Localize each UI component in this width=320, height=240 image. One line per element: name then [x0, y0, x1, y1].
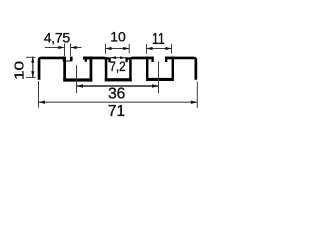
plate run C (box1 to box2): [83, 57, 105, 60]
dim 11 left arrow: [147, 47, 153, 50]
svg-text:71: 71: [108, 103, 125, 120]
dim 4,75 extension line left: [64, 44, 66, 57]
dim 7,2 right arrow: [120, 56, 125, 59]
dim 11 extension line right: [171, 44, 173, 54]
dim 4,75 left tail line: [45, 47, 64, 49]
hook at end of run A: [63, 57, 66, 62]
box1 bottom bar: [63, 78, 92, 81]
box3 right wall: [172, 57, 174, 81]
dim 10 left top arrow (pointing up): [31, 57, 34, 63]
dimension linework: [26, 44, 197, 109]
dim 10 left top extension line: [26, 56, 36, 58]
dim 71 left arrow: [39, 101, 45, 104]
box2 left lip hook: [108, 57, 110, 62]
web under 4,75 slot: [65, 60, 71, 61]
dim 71 extension line left: [38, 81, 40, 108]
svg-text:10: 10: [13, 61, 27, 80]
dim 10 top right arrow: [123, 47, 129, 50]
svg-text:10: 10: [110, 29, 126, 45]
dim 10 top extension line left: [105, 44, 107, 54]
box2 right lip: [125, 57, 131, 59]
dim 10 top line: [106, 48, 130, 50]
box3 right lip: [165, 57, 174, 60]
dim 36 extension line left: [76, 65, 78, 93]
dim 4,75 left arrow (outside, pointing right): [58, 46, 64, 49]
dim 7,2 line: [111, 57, 126, 59]
box1 right lip: [83, 57, 92, 60]
dim 10 top left arrow: [106, 47, 112, 50]
box3 right lip hook: [165, 57, 167, 62]
dim 36 right arrow: [152, 84, 158, 87]
dim 4,75 right arrow (outside, pointing left): [71, 46, 77, 49]
box2 right lip hook: [125, 57, 127, 62]
plate run D (box2 to box3): [132, 57, 147, 60]
dim 10 left bottom extension line: [26, 76, 36, 78]
box2 right wall: [129, 57, 132, 81]
dim 10 left bottom arrow (pointing down): [31, 71, 34, 77]
dim 71 right arrow: [191, 101, 197, 104]
dim 11 right arrow: [166, 47, 172, 50]
left outer wall with top plate run A: [38, 57, 65, 80]
box3 left lip: [146, 57, 154, 60]
dim 4,75 right tail line: [71, 47, 82, 49]
dim 71 extension line right: [196, 82, 198, 109]
dim 10 top extension line right: [128, 44, 130, 54]
svg-text:4,75: 4,75: [44, 30, 71, 46]
stub (right side of 4,75 slot): [70, 57, 73, 62]
box1 right lip hook: [85, 57, 87, 62]
box2 bottom bar: [105, 78, 132, 81]
box3 left lip hook: [151, 57, 153, 62]
svg-text:7,2: 7,2: [109, 58, 125, 74]
box3 bottom bar: [146, 78, 174, 81]
arrowheads: [31, 46, 197, 104]
box2 left wall: [105, 57, 108, 81]
profile cross-section (black extrusion outline): [38, 57, 198, 82]
dim 11 line: [147, 48, 172, 50]
dim 36 extension line right: [158, 62, 160, 94]
dim 4,75 extension line right: [70, 44, 72, 57]
right outer wall with plate run E: [174, 57, 197, 80]
dim 7,2 left arrow: [111, 56, 116, 59]
svg-text:11: 11: [152, 30, 165, 48]
box1 left wall: [63, 57, 66, 82]
dim 71 line: [39, 101, 198, 103]
box3 left wall: [146, 57, 148, 81]
box2 left lip: [105, 57, 111, 59]
dim 10 left vertical line: [32, 57, 34, 78]
dim 11 extension line left: [146, 44, 148, 54]
dim 36 left arrow: [77, 84, 83, 87]
dimension texts: [13, 29, 165, 120]
svg-text:36: 36: [108, 85, 125, 102]
box1 right wall: [90, 57, 93, 82]
dim 36 line: [77, 85, 159, 87]
